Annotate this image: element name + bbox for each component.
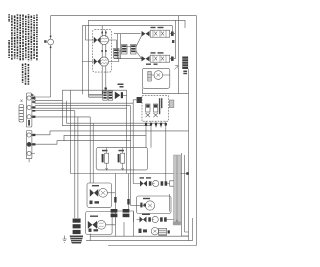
broil receptacle — [97, 220, 106, 229]
broil switch SW6 — [88, 221, 97, 229]
clock pin stubs — [146, 121, 166, 127]
clock vertical label — [159, 98, 163, 114]
relay K1 — [146, 104, 150, 117]
connector block CB2 — [122, 45, 137, 55]
bottom bus wires — [86, 236, 193, 240]
riser pair x75 x78 — [75, 111, 78, 218]
oven switch SW5 — [90, 189, 98, 197]
latch bar grey — [174, 155, 177, 225]
motor box — [142, 68, 170, 88]
wire riser x188 — [188, 69, 190, 241]
label IS1 — [151, 27, 164, 28]
label marks near J — [118, 84, 124, 88]
convect motor M2 — [131, 201, 155, 210]
latch bar cap — [173, 222, 181, 225]
wire mid horizontal y90 — [62, 89, 126, 91]
wire L1 top outer bus — [51, 15, 197, 17]
junction lug row D — [168, 230, 170, 233]
label above oven box — [92, 185, 99, 186]
motor M1 — [151, 71, 170, 80]
wires CB diagonals — [109, 36, 142, 62]
wire second inner vertical — [81, 26, 83, 95]
plug P3 — [70, 236, 84, 244]
notes text block NOTES (rotated tiny text, greeked) — [0, 0, 206, 267]
wire bottom outer — [108, 245, 197, 247]
wire bus terminal 2 fan — [35, 101, 133, 111]
wires around connector stacks — [106, 211, 134, 225]
wire mid horizontal y123 — [62, 123, 166, 126]
surface unit lead lugs — [101, 32, 106, 52]
riser x70 — [69, 90, 71, 173]
nested box lines right — [182, 153, 185, 236]
bottom small glyphs row — [139, 229, 148, 233]
wire fuse to terminal 1 — [32, 96, 51, 98]
mid risers — [127, 90, 134, 205]
small glyphs below lamp — [90, 201, 100, 205]
wire J to riser — [123, 95, 127, 97]
nested corners bottom right — [170, 194, 193, 241]
label P2 — [183, 71, 187, 75]
wire top sub bus — [82, 25, 172, 27]
wire terminal 5 short — [29, 154, 35, 163]
door switch row — [133, 177, 173, 186]
connector CN3 — [133, 97, 142, 103]
connector stacks above bottom bus — [111, 209, 130, 217]
bottom connector P4 — [159, 228, 167, 235]
connector block CB1 — [114, 49, 120, 59]
junction lug J feed — [105, 88, 107, 90]
broil box — [86, 212, 113, 235]
relay K2 — [153, 104, 157, 117]
connector P2 right — [182, 57, 188, 70]
wire terminal 3 — [35, 116, 90, 118]
labels above motor box — [146, 64, 158, 65]
bottom motor M3 — [151, 228, 158, 235]
wire right outer border — [196, 16, 198, 246]
junction lug y173 — [186, 172, 189, 175]
wire terminal 4 run — [35, 131, 189, 144]
terminal crimp lugs — [32, 97, 35, 146]
bake element R2 — [118, 148, 125, 171]
infinite switch IS2 — [114, 52, 175, 62]
label P mark — [172, 40, 174, 43]
clock assembly A1 — [142, 96, 168, 122]
riser with lug x128 — [127, 174, 129, 210]
oven lamp L1 — [99, 188, 108, 197]
maintop box — [93, 30, 112, 73]
riser x66 — [65, 101, 67, 124]
wire y93.5 — [142, 88, 188, 93]
surface unit leads — [82, 26, 106, 95]
vertical drops to bottom bus — [90, 212, 133, 241]
lower right box — [137, 196, 172, 214]
fuse B1 — [48, 16, 54, 97]
surface switch SW2 — [94, 58, 101, 64]
power supply cord P0 — [19, 100, 24, 123]
surface switch SW1 — [94, 37, 101, 43]
riser x62 — [61, 90, 63, 126]
clock pin lugs — [145, 123, 167, 126]
ground symbol G1 — [31, 94, 36, 103]
terminal block TB1 — [26, 93, 32, 159]
label above M2 — [143, 198, 150, 199]
element box — [96, 148, 148, 170]
surface element SE1 — [99, 35, 108, 44]
infinite switch IS1 — [114, 27, 175, 37]
arrow mark — [175, 66, 179, 70]
surface element SE2 — [99, 57, 108, 66]
wire risers top right — [172, 16, 178, 94]
oven box — [87, 183, 112, 207]
riser with lug x115 — [114, 174, 116, 223]
hatched bar H1 — [148, 72, 151, 82]
wire y173 — [70, 173, 188, 175]
bowtie IS1 — [142, 31, 150, 36]
wire inner top — [89, 20, 186, 28]
glyphs left of M2 — [140, 203, 146, 208]
wire IS link verticals — [118, 34, 121, 59]
connector stack J1 J2 — [89, 91, 113, 100]
stacked connectors lower left — [73, 219, 81, 235]
riser pair x90 x93 — [90, 117, 93, 183]
connector CN4 — [169, 100, 174, 108]
junction X1 — [115, 92, 123, 100]
wire inner left vertical — [88, 20, 90, 97]
label B1 — [44, 40, 46, 43]
broil element R1 — [102, 148, 109, 171]
ground G2 — [62, 236, 66, 243]
latch switch row — [137, 214, 178, 223]
broil box lower glyphs — [89, 229, 99, 232]
label above broil box — [90, 216, 98, 217]
label E1 — [102, 150, 124, 152]
